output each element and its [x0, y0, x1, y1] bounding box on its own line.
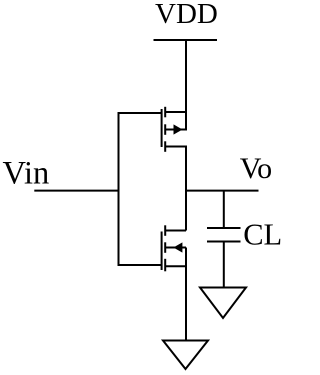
svg-text:CL: CL — [243, 218, 282, 252]
svg-text:Vin: Vin — [3, 156, 50, 192]
ground symbol at NMOS source — [163, 341, 208, 370]
M2 drain lead — [165, 230, 186, 232]
M1 bulk lead — [165, 129, 186, 131]
M1 source contact bar — [164, 107, 166, 118]
M1 drain contact bar — [164, 141, 166, 152]
M2 bulk contact bar — [164, 242, 166, 253]
M2 bulk lead — [165, 247, 186, 249]
wire capacitor to ground — [223, 242, 225, 289]
wire gate node (PMOS gate to NMOS gate) — [119, 113, 162, 265]
M1 drain lead — [165, 146, 186, 148]
wire output node — [185, 190, 259, 192]
svg-text:VDD: VDD — [155, 0, 218, 30]
transistor M2 (NMOS) — [162, 225, 186, 271]
transistor M1 (PMOS) — [162, 107, 186, 152]
M1 bulk contact bar — [164, 124, 166, 135]
VDD supply rail — [154, 39, 218, 41]
wire PMOS drain to output node — [185, 146, 187, 191]
M2 source lead — [165, 265, 186, 267]
wire VDD rail to PMOS source and bulk — [185, 40, 187, 131]
M1 bulk arrow (p-channel) — [174, 124, 183, 134]
M1 source lead — [165, 111, 186, 113]
wire Vin input — [34, 190, 118, 192]
M1 gate bar — [161, 109, 163, 147]
C1 top plate — [207, 227, 241, 229]
M2 drain contact bar — [164, 225, 166, 236]
capacitor C1 (CL) — [207, 228, 241, 242]
M2 source contact bar — [164, 259, 166, 272]
svg-text:Vo: Vo — [240, 152, 272, 185]
C1 bottom plate — [207, 241, 241, 243]
wire output node to capacitor CL — [223, 191, 225, 228]
M2 bulk arrow (n-channel) — [173, 242, 182, 252]
M2 gate bar — [161, 232, 163, 271]
ground symbol at capacitor — [200, 288, 246, 319]
wire output node to NMOS drain — [185, 191, 187, 231]
wire NMOS source and bulk to ground — [185, 248, 187, 342]
